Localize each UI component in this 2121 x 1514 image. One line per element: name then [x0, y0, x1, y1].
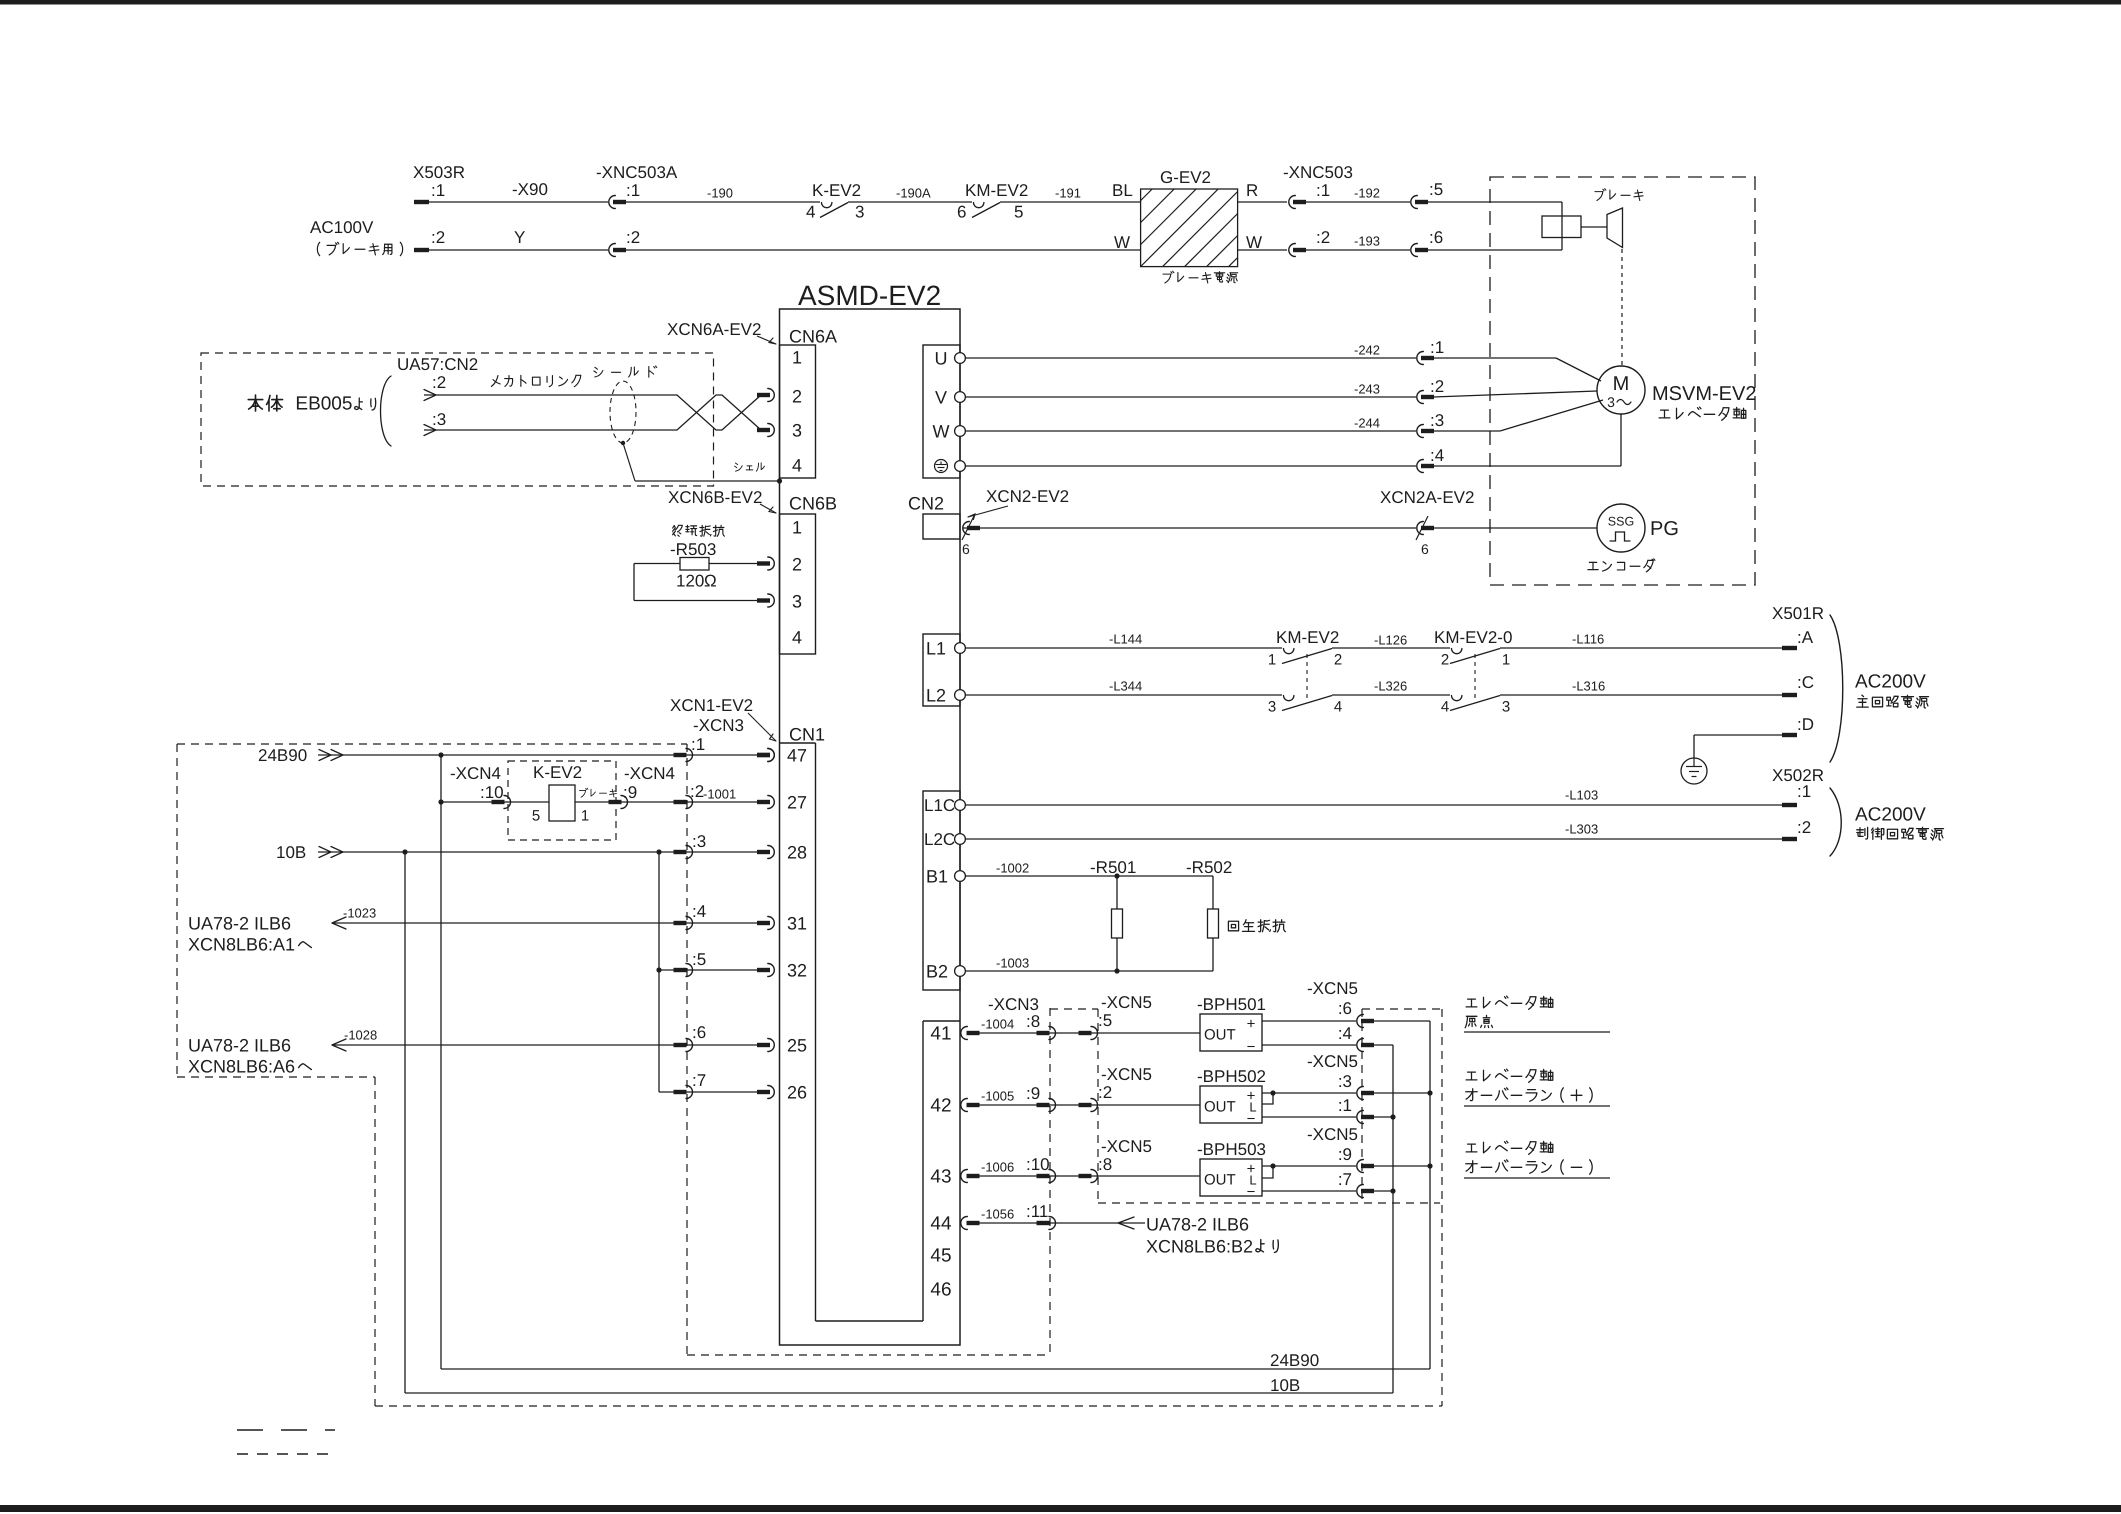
svg-text:OUT: OUT [1204, 1098, 1236, 1115]
svg-text::4: :4 [1430, 446, 1444, 465]
svg-text::1: :1 [1316, 181, 1330, 200]
svg-text::4: :4 [692, 902, 706, 921]
svg-text:2: 2 [792, 386, 802, 406]
svg-text:CN6A: CN6A [789, 326, 837, 346]
svg-text:43: 43 [930, 1167, 951, 1188]
svg-text:L2: L2 [926, 685, 946, 705]
svg-text:-XCN5: -XCN5 [1101, 1137, 1152, 1156]
svg-text:1: 1 [1502, 651, 1510, 668]
svg-text:K-EV2: K-EV2 [812, 181, 861, 200]
svg-text:-BPH503: -BPH503 [1197, 1140, 1266, 1159]
svg-text:-R501: -R501 [1090, 858, 1136, 877]
svg-text::5: :5 [692, 950, 706, 969]
svg-text:U: U [935, 348, 948, 368]
svg-text::5: :5 [1429, 180, 1443, 199]
svg-text::6: :6 [1338, 999, 1352, 1018]
svg-text:-XCN5: -XCN5 [1307, 979, 1358, 998]
svg-text:-1056: -1056 [981, 1207, 1014, 1222]
svg-text:-1004: -1004 [981, 1017, 1014, 1032]
svg-text:-190: -190 [707, 186, 733, 201]
svg-text:-XNC503A: -XNC503A [596, 163, 678, 182]
svg-text:3: 3 [1502, 698, 1510, 715]
svg-text:-X90: -X90 [512, 180, 548, 199]
svg-text:42: 42 [930, 1096, 951, 1117]
svg-text:L1: L1 [926, 638, 946, 658]
svg-text::6: :6 [692, 1023, 706, 1042]
svg-text:-XCN5: -XCN5 [1307, 1052, 1358, 1071]
svg-text:-191: -191 [1055, 186, 1081, 201]
svg-text:-XNC503: -XNC503 [1283, 163, 1353, 182]
svg-text:-BPH501: -BPH501 [1197, 995, 1266, 1014]
svg-text:25: 25 [787, 1035, 807, 1055]
svg-text:4: 4 [1441, 698, 1449, 715]
svg-text::2: :2 [431, 228, 445, 247]
svg-text::2: :2 [1098, 1083, 1112, 1102]
svg-text:OUT: OUT [1204, 1171, 1236, 1188]
svg-text:4: 4 [792, 455, 802, 475]
svg-text:-XCN4: -XCN4 [624, 764, 675, 783]
svg-text:10B: 10B [1270, 1376, 1300, 1395]
svg-text::1: :1 [1338, 1096, 1352, 1115]
svg-text:27: 27 [787, 792, 807, 812]
svg-text:K-EV2: K-EV2 [533, 763, 582, 782]
svg-text::2: :2 [626, 228, 640, 247]
svg-text::8: :8 [1026, 1012, 1040, 1031]
svg-text:R: R [1246, 181, 1258, 200]
svg-text:KM-EV2-0: KM-EV2-0 [1434, 628, 1512, 647]
svg-text:-L103: -L103 [1565, 788, 1598, 803]
svg-text::6: :6 [1429, 228, 1443, 247]
svg-text:W: W [933, 421, 950, 441]
svg-text:4: 4 [806, 202, 815, 221]
svg-text:1: 1 [792, 517, 802, 537]
svg-text:XCN2A-EV2: XCN2A-EV2 [1380, 488, 1474, 507]
svg-text:L1C: L1C [924, 796, 955, 815]
svg-text:-1006: -1006 [981, 1160, 1014, 1175]
svg-text:-190A: -190A [896, 186, 931, 201]
svg-text:1: 1 [581, 807, 589, 824]
svg-text:OUT: OUT [1204, 1026, 1236, 1043]
svg-text::2: :2 [690, 782, 704, 801]
svg-text::11: :11 [1026, 1202, 1048, 1221]
svg-text:-L126: -L126 [1374, 633, 1407, 648]
svg-text:CN1: CN1 [789, 724, 825, 744]
svg-text:31: 31 [787, 913, 807, 933]
svg-text:-L326: -L326 [1374, 679, 1407, 694]
svg-text:4: 4 [792, 627, 802, 647]
svg-text:-R502: -R502 [1186, 858, 1232, 877]
svg-text::1: :1 [1797, 782, 1811, 801]
svg-text:1: 1 [1268, 651, 1276, 668]
svg-text:10B: 10B [276, 843, 306, 862]
svg-text:-R503: -R503 [670, 540, 716, 559]
svg-text::2: :2 [1797, 818, 1811, 837]
svg-text:MSVM-EV2: MSVM-EV2 [1652, 383, 1756, 405]
svg-text::3: :3 [692, 832, 706, 851]
svg-text:-XCN4: -XCN4 [450, 764, 501, 783]
svg-text::D: :D [1797, 715, 1814, 734]
svg-text:3: 3 [855, 202, 864, 221]
svg-text:2: 2 [792, 554, 802, 574]
svg-text:AC200V: AC200V [1855, 672, 1926, 693]
svg-text::2: :2 [1316, 228, 1330, 247]
svg-text:6: 6 [962, 541, 970, 557]
svg-text::1: :1 [1430, 338, 1444, 357]
svg-text:-L316: -L316 [1572, 679, 1605, 694]
svg-text:120: 120 [676, 571, 704, 590]
svg-text::10: :10 [1026, 1155, 1050, 1174]
svg-text:A6: A6 [273, 1056, 295, 1076]
svg-text:-XCN3: -XCN3 [693, 716, 744, 735]
svg-text:XCN6B-EV2: XCN6B-EV2 [668, 488, 762, 507]
svg-text:+: + [1247, 1015, 1256, 1032]
svg-text:L2C: L2C [924, 830, 955, 849]
svg-text:41: 41 [930, 1024, 951, 1045]
svg-text::3: :3 [1430, 411, 1444, 430]
svg-text:2: 2 [1334, 651, 1342, 668]
svg-text:Ω: Ω [704, 571, 717, 590]
svg-text:X503R: X503R [413, 163, 465, 182]
svg-text:UA78-2 ILB6: UA78-2 ILB6 [1146, 1214, 1249, 1234]
svg-text::9: :9 [623, 783, 637, 802]
svg-text:44: 44 [930, 1214, 952, 1235]
svg-text::7: :7 [1338, 1170, 1352, 1189]
svg-text:M: M [1613, 373, 1630, 395]
svg-text:X501R: X501R [1772, 604, 1824, 623]
svg-text::1: :1 [626, 181, 640, 200]
svg-text:-L144: -L144 [1109, 632, 1142, 647]
svg-text:KM-EV2: KM-EV2 [965, 181, 1028, 200]
svg-text:28: 28 [787, 842, 807, 862]
svg-text::C: :C [1797, 673, 1814, 692]
svg-text:-XCN5: -XCN5 [1101, 1065, 1152, 1084]
svg-text:Y: Y [514, 228, 525, 247]
svg-text:3: 3 [792, 420, 802, 440]
svg-text:2: 2 [1441, 651, 1449, 668]
svg-text:-L344: -L344 [1109, 679, 1142, 694]
svg-text:XCN6A-EV2: XCN6A-EV2 [667, 320, 761, 339]
svg-text:KM-EV2: KM-EV2 [1276, 628, 1339, 647]
svg-text::2: :2 [432, 373, 446, 392]
svg-text:-192: -192 [1354, 186, 1380, 201]
svg-text:5: 5 [1014, 202, 1023, 221]
svg-text::9: :9 [1026, 1084, 1040, 1103]
svg-text:XCN2-EV2: XCN2-EV2 [986, 487, 1069, 506]
svg-text:3: 3 [792, 591, 802, 611]
svg-text:-XCN3: -XCN3 [988, 995, 1039, 1014]
svg-text:45: 45 [930, 1246, 951, 1267]
svg-text:XCN8LB6:: XCN8LB6: [188, 934, 273, 954]
svg-text:-193: -193 [1354, 234, 1380, 249]
svg-text:26: 26 [787, 1082, 807, 1102]
svg-text:3: 3 [1607, 394, 1615, 410]
svg-text::8: :8 [1098, 1155, 1112, 1174]
svg-text:ASMD-EV2: ASMD-EV2 [798, 280, 941, 311]
svg-text::1: :1 [691, 735, 705, 754]
svg-text:24B90: 24B90 [258, 746, 307, 765]
svg-text:-BPH502: -BPH502 [1197, 1067, 1266, 1086]
svg-text:-1023: -1023 [343, 906, 376, 921]
svg-text:UA57:CN2: UA57:CN2 [397, 355, 478, 374]
svg-text:−: − [1247, 1110, 1256, 1127]
svg-text:3: 3 [1268, 698, 1276, 715]
svg-text:-244: -244 [1354, 416, 1380, 431]
svg-text:−: − [1247, 1038, 1256, 1055]
svg-text:−: − [1247, 1183, 1256, 1200]
svg-text::7: :7 [692, 1071, 706, 1090]
svg-text:-242: -242 [1354, 343, 1380, 358]
svg-text:UA78-2 ILB6: UA78-2 ILB6 [188, 1035, 291, 1055]
svg-text:CN2: CN2 [908, 493, 944, 513]
svg-text::3: :3 [1338, 1072, 1352, 1091]
svg-text:-1003: -1003 [996, 956, 1029, 971]
svg-text:XCN8LB6:: XCN8LB6: [188, 1056, 273, 1076]
svg-text:EB005: EB005 [295, 394, 352, 415]
svg-text:6: 6 [1421, 541, 1429, 557]
svg-text::A: :A [1797, 628, 1814, 647]
svg-text:5: 5 [532, 807, 540, 824]
svg-text:-XCN5: -XCN5 [1101, 993, 1152, 1012]
svg-text:-243: -243 [1354, 382, 1380, 397]
svg-text:-1005: -1005 [981, 1089, 1014, 1104]
svg-text:4: 4 [1334, 698, 1342, 715]
svg-text:AC200V: AC200V [1855, 805, 1926, 826]
svg-text:-XCN5: -XCN5 [1307, 1125, 1358, 1144]
svg-text:B1: B1 [926, 866, 948, 886]
svg-text:32: 32 [787, 960, 807, 980]
svg-text:A1: A1 [273, 934, 295, 954]
svg-text::9: :9 [1338, 1145, 1352, 1164]
svg-text:BL: BL [1112, 181, 1133, 200]
svg-text:-L303: -L303 [1565, 822, 1598, 837]
svg-text:24B90: 24B90 [1270, 1351, 1319, 1370]
svg-text:SSG: SSG [1608, 514, 1634, 528]
svg-text::10: :10 [480, 783, 504, 802]
svg-text:G-EV2: G-EV2 [1160, 168, 1211, 187]
svg-text:46: 46 [930, 1280, 951, 1301]
svg-text:UA78-2 ILB6: UA78-2 ILB6 [188, 913, 291, 933]
svg-text:V: V [935, 387, 947, 407]
svg-text::3: :3 [432, 410, 446, 429]
svg-text:47: 47 [787, 745, 807, 765]
svg-text::1: :1 [431, 181, 445, 200]
svg-text:1: 1 [792, 347, 802, 367]
svg-text:-1002: -1002 [996, 861, 1029, 876]
svg-text:W: W [1246, 233, 1262, 252]
svg-text:XCN8LB6:B2: XCN8LB6:B2 [1146, 1236, 1253, 1256]
svg-text::5: :5 [1098, 1011, 1112, 1030]
svg-text:W: W [1114, 233, 1130, 252]
svg-text:AC100V: AC100V [310, 218, 374, 237]
svg-text:-L116: -L116 [1572, 632, 1604, 647]
svg-text:-1001: -1001 [703, 787, 736, 802]
svg-text::4: :4 [1338, 1024, 1352, 1043]
svg-text:B2: B2 [926, 961, 948, 981]
svg-text:6: 6 [957, 202, 966, 221]
svg-text:-1028: -1028 [344, 1028, 377, 1043]
svg-text:CN6B: CN6B [789, 493, 837, 513]
svg-text:PG: PG [1650, 518, 1679, 540]
svg-text::2: :2 [1430, 377, 1444, 396]
svg-text:XCN1-EV2: XCN1-EV2 [670, 696, 753, 715]
